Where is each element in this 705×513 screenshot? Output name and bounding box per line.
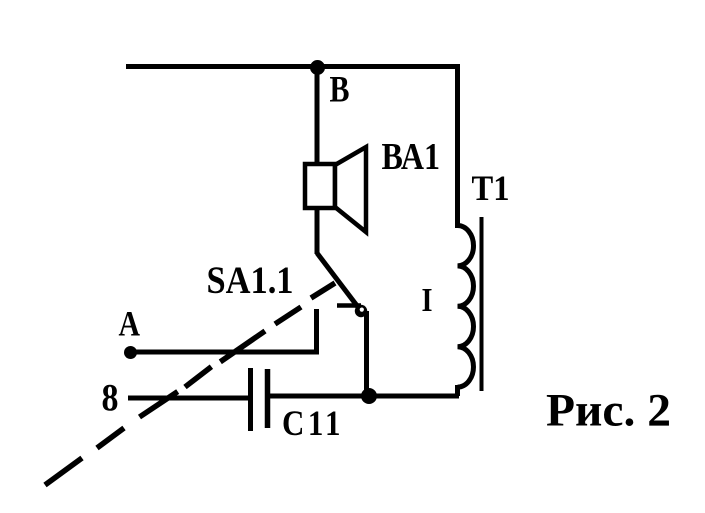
transformer T1 winding I coil xyxy=(458,225,474,387)
node A label А xyxy=(119,304,141,344)
speaker BA1 cone xyxy=(335,147,366,232)
capacitor C11 right plate xyxy=(265,369,271,428)
bottom junction node dot xyxy=(361,388,377,404)
svg-text:SA1.1: SA1.1 xyxy=(207,259,294,302)
speaker label BA1 xyxy=(382,136,441,178)
wire terminal 8 to capacitor xyxy=(128,396,248,401)
figure caption Рис. 2 xyxy=(546,385,671,437)
node B label В xyxy=(330,70,350,111)
wire right vertical from top bus xyxy=(455,64,460,228)
speaker BA1 body rectangle xyxy=(305,164,335,208)
svg-text:Рис. 2: Рис. 2 xyxy=(546,385,671,437)
transformer label T1 xyxy=(472,168,510,208)
wire node B down to speaker xyxy=(315,66,320,166)
svg-text:I: I xyxy=(422,282,433,319)
svg-text:8: 8 xyxy=(102,377,119,420)
node A junction dot xyxy=(124,346,137,359)
wire node A horizontal xyxy=(130,350,319,355)
svg-text:ВА1: ВА1 xyxy=(382,136,441,178)
svg-text:В: В xyxy=(330,70,350,111)
svg-text:С11: С11 xyxy=(282,403,344,443)
svg-text:Т1: Т1 xyxy=(472,168,510,208)
wire switch contact down to bottom node xyxy=(364,311,369,396)
capacitor C11 left plate xyxy=(248,368,253,431)
capacitor label C11 xyxy=(282,403,344,443)
wire speaker down to switch pole xyxy=(315,206,320,254)
transformer T1 core line xyxy=(480,217,484,391)
node B junction dot xyxy=(310,60,325,75)
wire top horizontal bus xyxy=(126,64,459,69)
switch SA1.1 contact hook xyxy=(355,305,367,317)
switch label SA1.1 xyxy=(207,259,294,302)
wire bottom horizontal capacitor to winding xyxy=(267,394,459,399)
winding number label I xyxy=(422,282,433,319)
switch SA1.1 blade xyxy=(317,253,361,311)
wire stub up to switch open contact xyxy=(314,309,319,352)
terminal label 8 xyxy=(102,377,119,420)
svg-text:А: А xyxy=(119,304,141,344)
wire winding bottom to node xyxy=(455,385,460,396)
dashed mechanical link of SA1.1 xyxy=(45,283,335,485)
switch SA1.1 fixed contact stub xyxy=(337,303,361,308)
